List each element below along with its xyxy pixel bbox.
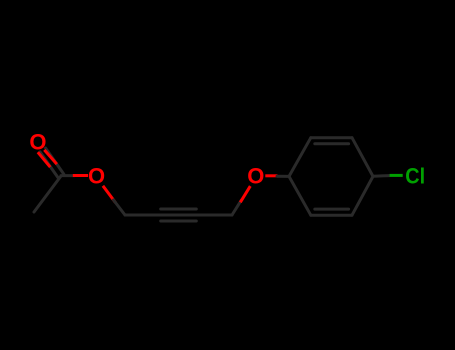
benzene ring edge BL-L [289, 176, 311, 215]
benzene ring edge TR-R [352, 138, 373, 177]
bond C(=O)-O ester, black half [61, 174, 75, 177]
benzene inner double bond bottom [315, 208, 349, 211]
benzene ring edge TL-TR [311, 136, 352, 139]
benzene inner double bond top [315, 142, 349, 145]
bond CH2-O phenolic, black half [232, 200, 241, 215]
triple bond upper line [161, 208, 197, 211]
bond C(=O)-O ester, red half [73, 174, 88, 177]
bond O-CH2, black half [114, 200, 126, 215]
benzene ring edge L-TL [289, 138, 311, 177]
svg-text:O: O [88, 164, 105, 189]
carbonyl C=O double bond black halves [40, 148, 64, 178]
carbonyl C=O double bond red halves [38, 150, 57, 167]
benzene ring edge R-BR [352, 176, 373, 215]
benzene ring edge BR-BL [311, 214, 352, 217]
bond ring-Cl, black half [373, 174, 390, 178]
bond O-CH2, red half [103, 186, 116, 203]
bond O-ring, red half [265, 174, 277, 177]
methyl CH3 bond [34, 176, 61, 212]
svg-text:Cl: Cl [405, 165, 425, 189]
bond ring-Cl, green half [390, 174, 403, 177]
bond CH2-O phenolic, red half [240, 186, 250, 202]
svg-text:O: O [29, 129, 46, 154]
bond O-ring, black half [277, 175, 289, 178]
svg-text:O: O [247, 164, 264, 189]
chain CH2-C#C-CH2 center line [125, 214, 232, 217]
triple bond lower line [161, 220, 197, 223]
